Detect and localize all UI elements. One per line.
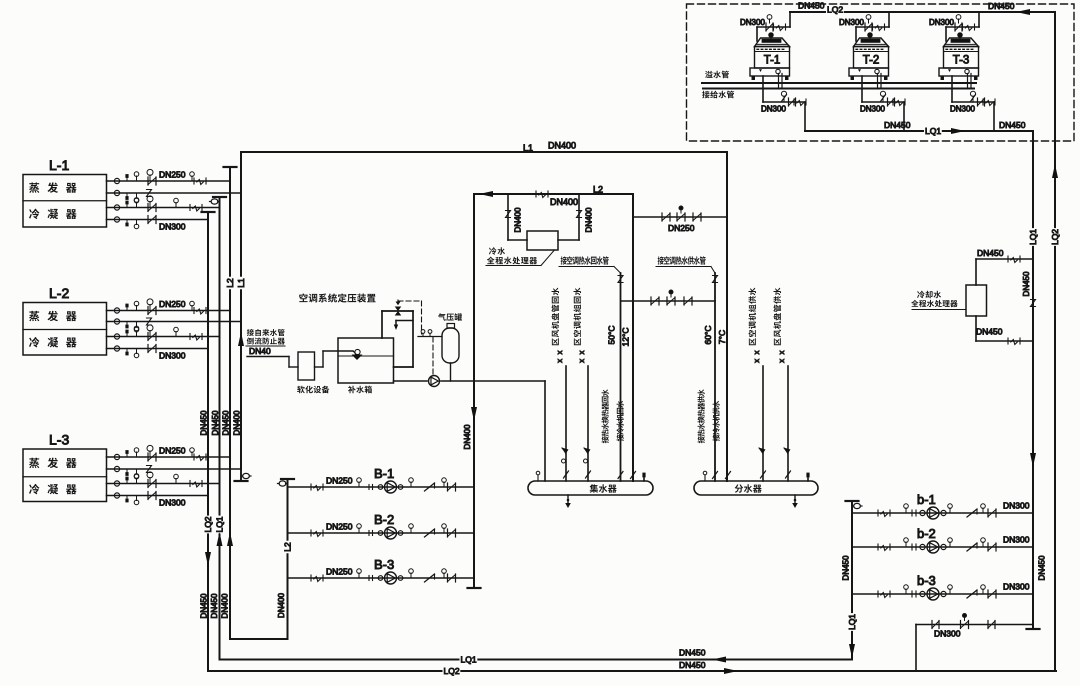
svg-text:DN300: DN300 <box>950 104 975 113</box>
svg-text:x: x <box>577 359 586 363</box>
svg-text:L-1: L-1 <box>49 157 69 173</box>
cooling tower T-1 supply piping DN300 <box>789 12 791 27</box>
feedwater header with label <box>703 88 974 90</box>
svg-text:DN300: DN300 <box>839 18 864 27</box>
title AC system pressurization device <box>299 293 307 302</box>
arrow up on L1 riser <box>238 332 244 346</box>
riser L1 lower stub with cap and air vent <box>240 469 242 481</box>
rotated label connect hot-water heat-exchanger supply <box>698 436 705 443</box>
label condenser <box>29 337 39 347</box>
butterfly valve <box>447 483 449 491</box>
svg-text:DN400: DN400 <box>584 207 593 232</box>
svg-text:DN250: DN250 <box>326 567 353 577</box>
svg-text:LQ1: LQ1 <box>1028 229 1038 245</box>
crossover DN250 between L2 drop and distributor drop <box>633 216 727 218</box>
pump b-3 branch DN300 <box>852 593 1033 595</box>
cooling tower T-1 body <box>769 33 773 37</box>
svg-text:x: x <box>555 359 564 363</box>
tower T-2 drain piping DN300 <box>861 76 863 102</box>
svg-text:DN300: DN300 <box>740 18 765 27</box>
float valve <box>353 351 356 357</box>
zone pipe <box>787 366 789 481</box>
cooling tower T-2 body <box>868 33 872 37</box>
svg-text:DN450: DN450 <box>977 248 1004 258</box>
zone pipe <box>762 366 764 481</box>
chiller L-1 box <box>23 175 107 228</box>
svg-text:DN400: DN400 <box>548 141 576 151</box>
arrow up LQ1 riser <box>217 532 223 546</box>
pipe L-3 evaporator return <box>107 468 242 470</box>
make-up pump <box>394 380 428 382</box>
softener box <box>298 352 315 380</box>
distributor drain <box>794 495 796 504</box>
svg-text:DN450: DN450 <box>211 410 220 435</box>
tower T-1 overflow connections <box>778 74 780 89</box>
pipe L-3 evaporator supply DN250 <box>107 456 231 458</box>
distributor end vents <box>704 475 706 481</box>
svg-text:60°C: 60°C <box>703 326 713 345</box>
inline label LQ1 <box>216 516 224 534</box>
svg-text:DN300: DN300 <box>929 18 954 27</box>
pump B-3 branch DN250 <box>288 577 475 579</box>
riser LQ2 to towers <box>1054 12 1056 671</box>
arrow down LQ2 riser <box>205 552 211 566</box>
svg-text:DN300: DN300 <box>1003 535 1030 545</box>
svg-text:DN400: DN400 <box>463 424 472 449</box>
suction manifold left vertical <box>287 479 289 639</box>
label connect AC hot-water return pipe <box>561 256 567 264</box>
tower T-3 drain piping DN300 <box>951 76 953 102</box>
riser LQ1 tower return down to pumps <box>1032 131 1034 629</box>
cooling water treater box <box>966 285 987 316</box>
label backflow preventer <box>247 337 254 344</box>
svg-text:DN450: DN450 <box>1022 271 1031 296</box>
pipe hot-water supply from distributor <box>714 273 716 481</box>
zone pipe <box>565 366 567 481</box>
dashed enclosure cooling towers <box>687 4 1075 141</box>
pipe L-2 evaporator return <box>107 321 242 323</box>
butterfly valve <box>987 590 989 598</box>
svg-text:DN400: DN400 <box>277 593 286 618</box>
svg-text:L2: L2 <box>593 185 603 195</box>
svg-text:DN300: DN300 <box>860 104 885 113</box>
butterfly valve <box>987 543 989 551</box>
svg-text:DN250: DN250 <box>668 223 695 233</box>
svg-text:7°C: 7°C <box>717 330 727 344</box>
crossover with motorized valve lower <box>621 300 715 302</box>
svg-text:B-2: B-2 <box>374 512 394 527</box>
pump B-3 <box>378 576 383 581</box>
label condenser <box>29 484 39 494</box>
expansion tank (pressure tank) <box>442 328 459 363</box>
svg-text:x: x <box>777 359 786 363</box>
pipe L-1 condenser outlet DN300 <box>107 219 209 221</box>
svg-text:DN450: DN450 <box>884 120 911 130</box>
label pressure tank <box>438 313 446 320</box>
svg-text:L2: L2 <box>283 542 293 552</box>
pump b-3 <box>920 591 925 596</box>
svg-text:DN450: DN450 <box>841 555 850 580</box>
pump b-1 branch DN300 <box>852 512 1033 514</box>
make-up water tank <box>338 338 394 383</box>
check valve <box>967 543 977 551</box>
pipe L2 header to collector <box>474 193 633 195</box>
pipe L-2 condenser inlet <box>107 336 220 338</box>
label make-up tank <box>348 386 356 394</box>
svg-text:DN300: DN300 <box>159 498 186 508</box>
check valve <box>967 590 977 598</box>
svg-text:x: x <box>777 350 786 354</box>
svg-text:DN450: DN450 <box>976 327 1003 337</box>
svg-text:DN400: DN400 <box>220 593 229 618</box>
svg-text:50°C: 50°C <box>607 326 617 345</box>
flex joint on L2 header <box>535 191 537 197</box>
cooling tower T-3 body <box>958 33 962 37</box>
svg-text:LQ1: LQ1 <box>461 655 477 665</box>
tower supply top header DN450 LQ2 <box>790 11 1055 13</box>
svg-text:DN250: DN250 <box>326 476 353 486</box>
distributor header (stadium) <box>694 481 818 495</box>
check valve <box>425 483 435 491</box>
svg-text:L1: L1 <box>523 143 533 153</box>
inline label L2 riser <box>226 277 234 290</box>
svg-text:L-3: L-3 <box>49 432 69 448</box>
pump B-1 <box>378 485 383 490</box>
cooling water treater bypass top DN450 <box>976 258 1033 260</box>
pipe LQ2 bottom main (to towers) <box>208 670 1056 672</box>
check valve <box>425 574 435 582</box>
svg-text:LQ1: LQ1 <box>847 614 857 630</box>
svg-text:DN450: DN450 <box>199 410 208 435</box>
svg-text:DN250: DN250 <box>159 170 186 180</box>
tower return bottom header DN450 LQ1 <box>805 130 1032 132</box>
pipe L-2 evaporator supply DN250 <box>107 310 231 312</box>
pipe L-3 condenser inlet <box>107 483 220 485</box>
svg-text:DN400: DN400 <box>550 197 578 207</box>
tower bypass DN300 <box>916 624 1033 626</box>
svg-text:DN450: DN450 <box>1037 555 1046 580</box>
svg-text:T-3: T-3 <box>953 55 970 67</box>
pipe distributor drop <box>726 152 728 481</box>
pipe L-1 condenser inlet <box>107 207 220 209</box>
control dashed lines <box>397 300 399 301</box>
svg-text:12°C: 12°C <box>621 328 631 347</box>
chilled water treater branch right DN400 <box>578 194 580 240</box>
svg-text:B-1: B-1 <box>374 466 394 481</box>
collector header (stadium) <box>528 481 653 495</box>
pump B-2 branch DN250 <box>288 532 475 534</box>
svg-text:DN300: DN300 <box>159 222 186 232</box>
svg-text:b-1: b-1 <box>917 492 936 507</box>
svg-text:B-3: B-3 <box>374 557 394 572</box>
label cooling water full-flow treater <box>917 291 925 299</box>
rotated label connect chiller supply <box>713 434 720 441</box>
svg-text:DN450: DN450 <box>999 120 1026 130</box>
svg-text:DN300: DN300 <box>1003 582 1030 592</box>
check valve <box>425 529 435 537</box>
tower T-2 overflow connections <box>877 74 879 89</box>
tank bottom pipe <box>450 363 452 381</box>
label chilled water treater <box>489 247 497 255</box>
svg-text:x: x <box>752 350 761 354</box>
overflow header with label <box>702 82 976 84</box>
pressure switches <box>418 336 442 338</box>
svg-text:L-2: L-2 <box>49 285 69 301</box>
svg-text:DN300: DN300 <box>159 351 186 361</box>
svg-text:b-2: b-2 <box>917 526 936 541</box>
svg-text:b-3: b-3 <box>917 573 936 588</box>
pipe L-1 evaporator return <box>107 192 242 194</box>
svg-text:LQ2: LQ2 <box>827 5 843 15</box>
tower T-3 overflow connections <box>967 74 969 89</box>
pipe L2 riser to suction manifold <box>230 638 288 640</box>
chiller L-2 box <box>23 303 107 356</box>
butterfly valve <box>987 509 989 517</box>
check valve <box>967 509 977 517</box>
svg-text:T-1: T-1 <box>764 55 781 67</box>
cooling water treater bypass bottom DN450 <box>975 316 977 341</box>
svg-text:DN250: DN250 <box>159 446 186 456</box>
inline label L1 riser <box>237 277 245 290</box>
pump b-1 <box>920 510 925 515</box>
svg-text:DN250: DN250 <box>326 522 353 532</box>
slash valves at collector/distributor inlets <box>618 472 623 479</box>
svg-text:DN450: DN450 <box>798 1 825 11</box>
label evaporator <box>29 311 39 321</box>
tower T-1 drain piping DN300 <box>762 76 764 102</box>
cooling tower T-2 supply piping DN300 <box>888 12 890 27</box>
pipe LQ1 bottom main (to condensers) <box>220 659 853 661</box>
pump B-1 branch DN250 <box>288 486 475 488</box>
cooling tower T-3 supply piping DN300 <box>978 12 980 27</box>
label condenser <box>29 209 39 219</box>
zone pipe <box>587 366 589 481</box>
svg-text:DN450: DN450 <box>988 1 1015 11</box>
svg-text:DN400: DN400 <box>513 207 522 232</box>
svg-text:L1: L1 <box>236 278 246 288</box>
butterfly valve <box>447 574 449 582</box>
svg-text:x: x <box>555 350 564 354</box>
riser L1 chilled supply <box>240 152 242 469</box>
make-up discharge to collector <box>441 380 545 382</box>
pipe L-2 condenser outlet DN300 <box>107 348 209 350</box>
relief valve piping <box>381 311 383 338</box>
riser LQ1 (condenser return) <box>213 196 226 198</box>
svg-text:DN300: DN300 <box>934 629 961 639</box>
svg-text:L2: L2 <box>225 278 235 288</box>
svg-text:DN450: DN450 <box>679 648 706 658</box>
chilled water full-flow treater box <box>527 231 558 250</box>
svg-text:DN300: DN300 <box>1003 501 1030 511</box>
chilled water treater branch left DN400 <box>507 194 509 240</box>
pump b-2 branch DN300 <box>852 546 1033 548</box>
discharge manifold left vertical DN450 <box>851 501 853 660</box>
svg-text:DN300: DN300 <box>761 104 786 113</box>
pipe L-1 evaporator supply DN250 <box>107 180 231 182</box>
safety relief valve <box>395 307 402 312</box>
svg-text:LQ2: LQ2 <box>203 516 213 532</box>
svg-text:LQ2: LQ2 <box>444 666 460 676</box>
label evaporator <box>29 182 39 192</box>
pipe hot-water return into collector <box>620 273 622 481</box>
svg-text:LQ2: LQ2 <box>1050 229 1060 245</box>
label softening equipment <box>297 386 305 394</box>
riser LQ2 (condenser supply) <box>202 211 215 213</box>
butterfly valve <box>447 529 449 537</box>
chiller L-3 box <box>23 449 107 502</box>
svg-text:LQ1: LQ1 <box>215 516 225 532</box>
pump discharge riser DN400 to L2 header <box>473 194 475 588</box>
arrow up L2 riser <box>227 532 233 546</box>
svg-text:DN450: DN450 <box>199 593 208 618</box>
inline label LQ2 <box>204 516 212 534</box>
svg-text:DN40: DN40 <box>249 346 271 356</box>
pipe main chilled supply header L1 DN400 <box>241 151 727 153</box>
riser L2 chilled return <box>224 166 237 168</box>
svg-text:DN450: DN450 <box>221 410 230 435</box>
svg-text:DN400: DN400 <box>232 410 241 435</box>
svg-text:DN250: DN250 <box>159 299 186 309</box>
collector drain <box>567 495 569 504</box>
label evaporator <box>29 458 39 468</box>
svg-text:T-2: T-2 <box>863 55 880 67</box>
svg-text:DN450: DN450 <box>210 593 219 618</box>
svg-text:x: x <box>752 359 761 363</box>
label connect tap water pipe <box>247 329 254 336</box>
pipe softener to tank <box>315 366 324 368</box>
svg-text:x: x <box>577 350 586 354</box>
rotated label connect chiller return <box>617 434 624 441</box>
collector end vents <box>537 475 539 481</box>
tap water pipe <box>247 356 289 358</box>
pump b-2 <box>920 544 925 549</box>
label connect AC hot-water supply pipe <box>658 256 664 264</box>
svg-text:LQ1: LQ1 <box>925 126 941 136</box>
pipe L-3 condenser outlet DN300 <box>107 495 209 497</box>
pump B-2 <box>378 531 383 536</box>
svg-text:DN450: DN450 <box>679 660 706 670</box>
rotated label connect hot-water heat-exchanger return <box>602 436 609 443</box>
